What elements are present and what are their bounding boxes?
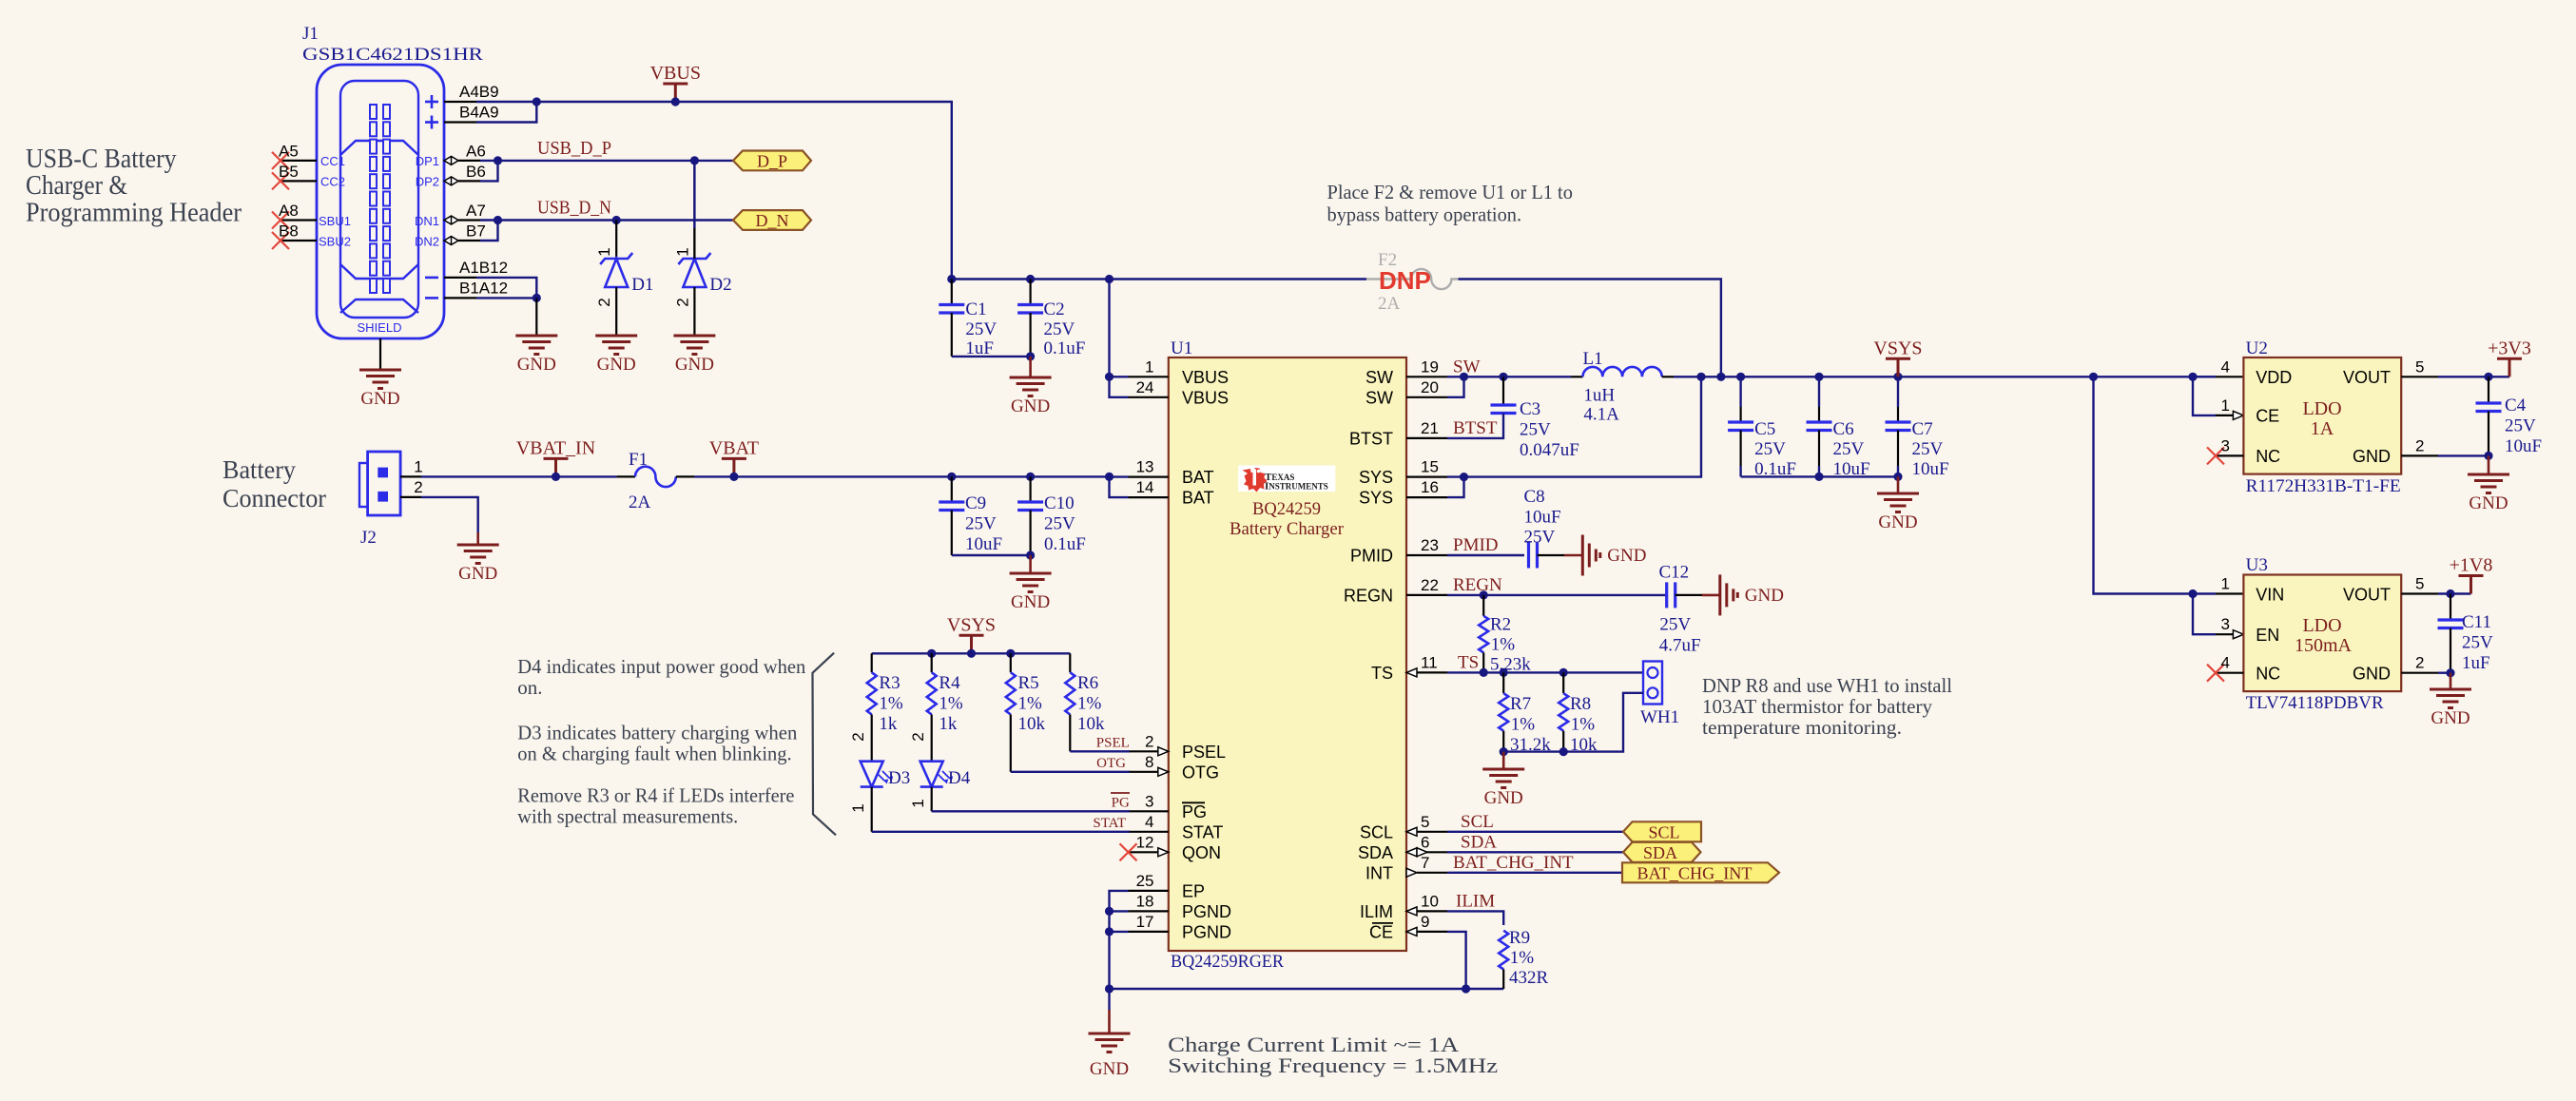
connector J1 contact ladder left column bbox=[370, 105, 377, 293]
svg-text:VBUS: VBUS bbox=[1182, 388, 1229, 407]
svg-text:GND: GND bbox=[458, 564, 497, 584]
capacitor C3 plates bbox=[1491, 405, 1517, 414]
wire B6 joins USB_D_P bbox=[480, 161, 498, 182]
junction CE at ground bus bbox=[1462, 984, 1470, 993]
wire U1 PGND pin18 connect bbox=[1110, 910, 1129, 912]
svg-text:10k: 10k bbox=[1018, 714, 1046, 734]
IC U1 pin 11 direction arrow bbox=[1406, 668, 1417, 677]
svg-text:J2: J2 bbox=[360, 528, 377, 548]
svg-text:BTST: BTST bbox=[1453, 418, 1498, 438]
junction C10 bottom bbox=[1026, 550, 1035, 559]
IC U1 pin 22 REGN stub bbox=[1406, 594, 1447, 596]
svg-text:B7: B7 bbox=[466, 222, 486, 241]
junction ground bus at C6 bbox=[1814, 473, 1823, 481]
resistor R8 bottom lead bbox=[1562, 731, 1564, 752]
capacitor C10 top lead bbox=[1029, 476, 1031, 502]
svg-text:25V: 25V bbox=[1912, 439, 1944, 459]
svg-text:1: 1 bbox=[849, 803, 867, 812]
svg-text:C2: C2 bbox=[1044, 299, 1065, 319]
svg-text:INT: INT bbox=[1365, 863, 1393, 882]
connector J1 pin B4A9 stub bbox=[444, 121, 476, 123]
junction U3 VIN at EN branch bbox=[2188, 589, 2197, 598]
junction TS at R8 bbox=[1559, 668, 1568, 677]
connector J1 pin A8 stub bbox=[281, 219, 317, 221]
junction B4A9/VBUS bbox=[533, 97, 541, 106]
svg-text:Connector: Connector bbox=[223, 484, 326, 512]
IC U1 pin 2 PSEL stub bbox=[1129, 750, 1158, 752]
svg-text:Battery: Battery bbox=[223, 455, 296, 484]
svg-text:1%: 1% bbox=[1571, 715, 1596, 735]
ground GND at J1 shield bbox=[359, 370, 401, 389]
IC U1 pin 11 TS stub bbox=[1417, 671, 1447, 673]
inductor L1 winding bbox=[1583, 367, 1662, 377]
svg-text:R3: R3 bbox=[879, 673, 900, 693]
IC U1 pin 6 SDA stub bbox=[1417, 851, 1447, 853]
junction ground bus at U1 stem bbox=[1105, 984, 1114, 993]
svg-text:GND: GND bbox=[1090, 1059, 1129, 1079]
svg-text:24: 24 bbox=[1136, 378, 1154, 396]
IC U3 pin 4 stub bbox=[2217, 672, 2243, 674]
svg-text:R8: R8 bbox=[1570, 694, 1591, 714]
junction VBAT bbox=[729, 473, 738, 481]
fuse F1 element bbox=[635, 467, 676, 487]
capacitor C1 plates bbox=[939, 305, 964, 314]
svg-text:SCL: SCL bbox=[1461, 812, 1494, 832]
svg-text:1uF: 1uF bbox=[2462, 653, 2490, 673]
junction USB_D_N at D1 branch bbox=[612, 216, 621, 224]
wire SW pin20 join bbox=[1447, 377, 1464, 397]
IC U1 TI logo bbox=[1238, 465, 1335, 492]
junction VSYS at C5 bbox=[1736, 373, 1745, 381]
wire D2 branch from USB_D_P bbox=[693, 161, 695, 228]
resistor R2 bottom lead bbox=[1482, 652, 1484, 672]
svg-text:PG: PG bbox=[1112, 795, 1130, 810]
connector J1 minus marks bbox=[425, 278, 438, 299]
connector J2 pin 1 stub bbox=[400, 475, 421, 477]
svg-text:5: 5 bbox=[2415, 575, 2424, 593]
svg-text:4: 4 bbox=[2221, 654, 2230, 672]
wire U2 VOUT to +3V3 bbox=[2438, 376, 2509, 377]
wire PSEL from R6 bbox=[1070, 750, 1130, 752]
svg-text:25V: 25V bbox=[1044, 319, 1075, 339]
resistor R6 bottom lead bbox=[1069, 715, 1071, 752]
wire C9 to C10 ground link bbox=[952, 554, 1031, 556]
svg-text:temperature monitoring.: temperature monitoring. bbox=[1702, 716, 1902, 739]
svg-text:1%: 1% bbox=[1077, 694, 1102, 714]
svg-text:2: 2 bbox=[414, 478, 422, 496]
resistor R9 bottom lead bbox=[1502, 970, 1504, 990]
resistor R6 top lead bbox=[1069, 653, 1071, 672]
svg-text:Place F2 & remove U1 or L1 to: Place F2 & remove U1 or L1 to bbox=[1327, 181, 1573, 203]
svg-text:19: 19 bbox=[1421, 357, 1439, 376]
svg-text:DP1: DP1 bbox=[416, 154, 439, 168]
svg-text:B6: B6 bbox=[466, 163, 486, 181]
wire VSYS LED rail bbox=[872, 652, 1071, 654]
svg-text:USB_D_P: USB_D_P bbox=[537, 138, 611, 159]
wire VSYS to U2 VDD bbox=[2193, 376, 2216, 377]
junction VSYS at U3 branch bbox=[2089, 373, 2098, 381]
svg-text:10: 10 bbox=[1421, 892, 1439, 910]
diode D2 triangle bbox=[683, 259, 706, 287]
svg-text:NC: NC bbox=[2256, 665, 2280, 684]
connector J1 shell divider bottom cap bbox=[340, 299, 418, 313]
resistor R3 top lead bbox=[871, 653, 873, 672]
wire C7 ground lead bbox=[1897, 476, 1900, 493]
svg-text:1: 1 bbox=[414, 458, 422, 476]
junction SW at C3 bbox=[1499, 373, 1507, 381]
IC U1 pin 7 INT stub bbox=[1417, 872, 1447, 874]
svg-text:25V: 25V bbox=[965, 319, 997, 339]
IC U1 pin 10 direction arrow bbox=[1406, 907, 1417, 916]
IC U1 pin 5 SCL stub bbox=[1417, 831, 1447, 833]
svg-text:2: 2 bbox=[849, 732, 867, 741]
resistor R9 body bbox=[1499, 931, 1508, 970]
capacitor C3 top lead bbox=[1502, 377, 1504, 405]
IC U1 pin 8 OTG stub bbox=[1129, 771, 1158, 773]
IC U1 pin 25 EP stub bbox=[1129, 890, 1169, 892]
capacitor C2 top lead bbox=[1029, 280, 1031, 305]
svg-text:DP2: DP2 bbox=[416, 175, 439, 189]
power flag +1V8 bbox=[2459, 576, 2484, 594]
LED D4 symbol bbox=[920, 762, 953, 787]
IC U1 pin 8 input arrow bbox=[1158, 767, 1169, 776]
connector J1 pin A5 no-connect X bbox=[272, 152, 289, 169]
svg-text:+1V8: +1V8 bbox=[2450, 555, 2493, 576]
capacitor C11 plates bbox=[2438, 620, 2464, 628]
fuse F1 right lead bbox=[676, 475, 694, 477]
svg-text:1%: 1% bbox=[1491, 635, 1516, 655]
junction VSYS at F2 branch bbox=[1716, 373, 1725, 381]
connector J1 pin A6 direction diamond bbox=[444, 156, 458, 164]
svg-text:1A: 1A bbox=[2311, 418, 2334, 439]
svg-text:2: 2 bbox=[909, 732, 927, 741]
IC U3 pin 5 stub bbox=[2401, 592, 2438, 594]
connector J1 pin A8 no-connect X bbox=[272, 212, 289, 229]
junction VSYS at C7 bbox=[1893, 373, 1902, 381]
junction BAT pins split bbox=[1105, 473, 1114, 481]
junction TS at R2 bbox=[1480, 668, 1488, 677]
svg-text:VBUS: VBUS bbox=[1182, 368, 1229, 387]
svg-text:SDA: SDA bbox=[1358, 843, 1393, 862]
IC U3 pin 2 stub bbox=[2401, 672, 2438, 674]
capacitor C11 top lead bbox=[2450, 594, 2451, 621]
capacitor C2 plates bbox=[1017, 305, 1043, 314]
bracket for LED note bbox=[813, 653, 837, 836]
IC U1 pin 3 PG stub bbox=[1129, 810, 1169, 812]
connector J1 pin B5 stub bbox=[281, 180, 317, 182]
ground GND below U1 bbox=[1089, 1033, 1131, 1053]
svg-text:Remove R3 or R4 if LEDs interf: Remove R3 or R4 if LEDs interfere bbox=[517, 784, 794, 807]
no-connect X at U1 QON bbox=[1120, 843, 1137, 860]
diode D1 zener bar bbox=[600, 253, 632, 264]
junction PGND 18 bbox=[1105, 907, 1114, 916]
svg-text:L1: L1 bbox=[1583, 349, 1603, 369]
svg-text:4: 4 bbox=[1145, 813, 1153, 831]
junction VOUT at C4 bbox=[2484, 373, 2492, 381]
wire PMID to C8 bbox=[1447, 554, 1524, 556]
svg-text:1%: 1% bbox=[1510, 948, 1535, 968]
connector J1 pin B6 direction diamond bbox=[444, 177, 458, 185]
svg-text:VIN: VIN bbox=[2256, 586, 2284, 605]
connector J1 contact ladder right column bbox=[383, 105, 390, 293]
net flag BAT_CHG_INT bbox=[1622, 862, 1779, 882]
wire BAT pin14 branch bbox=[1110, 477, 1129, 497]
svg-text:CC2: CC2 bbox=[320, 175, 345, 189]
svg-text:10uF: 10uF bbox=[2505, 436, 2542, 456]
wire VBUS rail from F2 down to SW node bbox=[1459, 280, 1721, 377]
text note D3 D4 LEDs bbox=[517, 655, 805, 828]
IC U1 pin 20 SW stub bbox=[1406, 396, 1447, 398]
svg-text:1%: 1% bbox=[939, 694, 963, 714]
svg-text:GND: GND bbox=[517, 355, 556, 375]
svg-text:2: 2 bbox=[1145, 732, 1153, 750]
junction at U1 pin1 bbox=[1105, 373, 1114, 381]
capacitor C1 top lead bbox=[951, 280, 953, 305]
IC U1 pin 23 PMID stub bbox=[1406, 554, 1447, 556]
junction U3 VOUT at C11 bbox=[2446, 589, 2454, 598]
IC U1 pin 6 direction arrow bbox=[1406, 848, 1417, 857]
svg-text:B8: B8 bbox=[279, 222, 299, 241]
svg-text:TS: TS bbox=[1458, 652, 1479, 672]
svg-text:D4: D4 bbox=[948, 768, 971, 788]
svg-text:GSB1C4621DS1HR: GSB1C4621DS1HR bbox=[302, 45, 483, 65]
svg-text:B5: B5 bbox=[279, 163, 299, 181]
inductor L1 right lead bbox=[1662, 376, 1674, 377]
svg-text:21: 21 bbox=[1421, 419, 1439, 437]
wire C2 bottom to ground bbox=[1029, 357, 1032, 377]
capacitor C5 top lead bbox=[1739, 377, 1741, 407]
svg-text:GND: GND bbox=[675, 355, 714, 375]
IC U1 pin 10 ILIM stub bbox=[1417, 910, 1447, 912]
resistor R5 bottom lead bbox=[1010, 715, 1012, 772]
svg-text:STAT: STAT bbox=[1093, 816, 1126, 831]
IC U3 EN input arrow bbox=[2233, 630, 2243, 639]
IC U2 pin 3 stub bbox=[2217, 454, 2243, 456]
fuse F2 (DNP) symbol bbox=[1366, 269, 1458, 289]
junction VSYS at SYS branch bbox=[1696, 373, 1705, 381]
svg-text:25V: 25V bbox=[1754, 439, 1786, 459]
svg-text:C6: C6 bbox=[1833, 419, 1854, 439]
wire SYS pins to VSYS node bbox=[1447, 377, 1701, 476]
svg-text:1uH: 1uH bbox=[1583, 386, 1615, 406]
junction USB_D_P at D2 branch bbox=[690, 156, 699, 164]
capacitor C7 top lead bbox=[1897, 377, 1899, 407]
svg-text:BQ24259RGER: BQ24259RGER bbox=[1171, 952, 1284, 972]
resistor R7 top lead bbox=[1502, 672, 1504, 693]
IC U1 pin 5 direction arrow bbox=[1406, 827, 1417, 836]
net flag SDA bbox=[1623, 842, 1701, 862]
svg-text:150mA: 150mA bbox=[2295, 635, 2353, 656]
svg-text:C9: C9 bbox=[965, 493, 986, 513]
svg-text:bypass battery operation.: bypass battery operation. bbox=[1327, 203, 1522, 226]
wire B1A12 junction down bbox=[535, 298, 537, 336]
power flag VBUS bbox=[663, 84, 688, 102]
fuse F1 left lead bbox=[617, 475, 635, 477]
svg-text:18: 18 bbox=[1136, 892, 1154, 910]
svg-text:D_P: D_P bbox=[757, 152, 787, 171]
inductor L1 left lead bbox=[1571, 376, 1583, 377]
svg-text:A6: A6 bbox=[466, 143, 486, 161]
IC U1 pin 12 QON stub bbox=[1129, 851, 1158, 853]
svg-text:ILIM: ILIM bbox=[1360, 902, 1393, 921]
connector J1 shell divider lower bbox=[340, 264, 418, 279]
svg-text:3: 3 bbox=[1145, 792, 1153, 810]
svg-text:BTST: BTST bbox=[1349, 429, 1393, 448]
svg-text:SCL: SCL bbox=[1648, 823, 1679, 842]
connector J1 shield stub bbox=[379, 338, 381, 370]
junction BAT at C10 bbox=[1026, 473, 1035, 481]
svg-text:R1172H331B-T1-FE: R1172H331B-T1-FE bbox=[2246, 476, 2401, 496]
svg-text:DNP R8 and use WH1 to install: DNP R8 and use WH1 to install bbox=[1702, 674, 1952, 697]
connector J1 plus marks bbox=[425, 95, 438, 129]
svg-text:25V: 25V bbox=[965, 514, 997, 534]
capacitor C12 plates bbox=[1667, 582, 1675, 608]
junction USB_D_P at B6 bbox=[494, 156, 502, 164]
svg-text:SDA: SDA bbox=[1461, 832, 1497, 852]
IC U1 pin 2 input arrow bbox=[1158, 747, 1169, 756]
capacitor C4 bottom lead bbox=[2488, 412, 2489, 456]
capacitor C11 bottom lead bbox=[2450, 628, 2451, 673]
svg-text:D1: D1 bbox=[631, 275, 653, 295]
junction VBUS rail at C1 bbox=[947, 275, 956, 283]
svg-text:1: 1 bbox=[673, 247, 691, 256]
resistor R8 body bbox=[1559, 693, 1568, 730]
wire U2 GND to C4 bottom bbox=[2438, 454, 2489, 456]
junction VBUS rail at U1 branch bbox=[1105, 275, 1114, 283]
junction VBUS rail at C2 bbox=[1026, 275, 1035, 283]
wire U3 EN branch bbox=[2193, 594, 2216, 635]
svg-text:1%: 1% bbox=[879, 694, 903, 714]
wire U1 EP/PGND bus bbox=[1110, 891, 1129, 989]
wire A1B12 to B1A12 ground bbox=[476, 278, 536, 299]
wire SYS pin16 join bbox=[1447, 477, 1464, 497]
svg-text:DN1: DN1 bbox=[415, 214, 439, 228]
svg-text:REGN: REGN bbox=[1344, 586, 1393, 605]
svg-text:SHIELD: SHIELD bbox=[358, 320, 402, 335]
svg-text:VDD: VDD bbox=[2256, 368, 2292, 387]
svg-text:GND: GND bbox=[1484, 788, 1523, 808]
svg-text:25V: 25V bbox=[2462, 633, 2493, 653]
svg-text:C5: C5 bbox=[1754, 419, 1775, 439]
connector J1 pin B7 direction diamond bbox=[444, 237, 458, 245]
junction SW at pin20 bbox=[1460, 373, 1468, 381]
capacitor C4 plates bbox=[2476, 403, 2502, 412]
resistor R8 top lead bbox=[1562, 672, 1564, 693]
svg-text:PSEL: PSEL bbox=[1096, 735, 1130, 750]
capacitor C5 bottom lead bbox=[1739, 431, 1741, 467]
svg-text:A8: A8 bbox=[279, 202, 299, 220]
resistor R3 body bbox=[867, 672, 877, 714]
IC U1 pin 12 input arrow bbox=[1158, 848, 1169, 857]
svg-text:A4B9: A4B9 bbox=[459, 83, 499, 101]
IC U2 pin 3 no-connect X bbox=[2207, 447, 2224, 464]
svg-text:CE: CE bbox=[1369, 922, 1393, 941]
junction LED rail at R4 bbox=[927, 649, 936, 658]
svg-text:6: 6 bbox=[1421, 833, 1429, 851]
connector J2 body bbox=[368, 452, 401, 515]
svg-text:PMID: PMID bbox=[1350, 547, 1393, 566]
svg-text:R5: R5 bbox=[1018, 673, 1039, 693]
svg-text:25V: 25V bbox=[1520, 420, 1551, 440]
svg-text:U3: U3 bbox=[2246, 555, 2268, 575]
svg-text:VBUS: VBUS bbox=[650, 63, 701, 84]
IC U2 pin 5 stub bbox=[2401, 376, 2438, 377]
svg-text:Charger &: Charger & bbox=[26, 170, 127, 201]
capacitor C6 top lead bbox=[1818, 377, 1820, 407]
junction C4 bottom bbox=[2484, 452, 2492, 460]
svg-text:D2: D2 bbox=[709, 275, 731, 295]
ground GND below C2 bbox=[1010, 377, 1052, 396]
svg-text:SW: SW bbox=[1365, 368, 1393, 387]
junction LED rail at VSYS bbox=[967, 649, 976, 658]
ground GND below C7 bbox=[1877, 493, 1919, 512]
svg-text:BAT_CHG_INT: BAT_CHG_INT bbox=[1453, 853, 1574, 873]
wire decoupling ground bus C5-C7 bbox=[1741, 475, 1898, 477]
ground GND sideways at C8 bbox=[1582, 535, 1600, 576]
IC U1 pin 1 VBUS stub bbox=[1129, 376, 1169, 377]
diode D1 anode lead bbox=[615, 287, 617, 336]
ground GND below C4 bbox=[2468, 474, 2509, 493]
connector J2 side tab bbox=[359, 463, 368, 507]
svg-text:J1: J1 bbox=[302, 24, 319, 44]
svg-text:GND: GND bbox=[360, 389, 399, 409]
wire VBUS rail to F2 bbox=[952, 278, 1366, 280]
LED D3 symbol bbox=[861, 762, 893, 787]
svg-text:4: 4 bbox=[2221, 357, 2230, 376]
capacitor C9 plates bbox=[939, 502, 964, 511]
connector J1 pin A1B12 stub bbox=[444, 277, 476, 279]
svg-text:R6: R6 bbox=[1077, 673, 1098, 693]
IC U1 pin 9 CE stub bbox=[1417, 931, 1447, 933]
wire ILIM to R9 bbox=[1447, 911, 1503, 925]
svg-text:GND: GND bbox=[1745, 586, 1784, 606]
wire TS net bbox=[1447, 671, 1643, 673]
svg-text:D4 indicates input power good: D4 indicates input power good when bbox=[517, 655, 805, 678]
svg-text:VOUT: VOUT bbox=[2343, 368, 2391, 387]
junction ground bus at C7 bbox=[1893, 473, 1902, 481]
wire ground bus below U1 bbox=[1110, 988, 1504, 990]
svg-text:5: 5 bbox=[2415, 357, 2424, 376]
svg-text:GND: GND bbox=[2469, 493, 2508, 513]
svg-text:U1: U1 bbox=[1171, 338, 1192, 358]
wire J2 pin2 ground lead bbox=[476, 532, 479, 545]
power flag VSYS at C7 bbox=[1886, 358, 1910, 377]
resistor R2 top lead bbox=[1482, 595, 1484, 616]
svg-text:10uF: 10uF bbox=[1524, 508, 1561, 528]
svg-text:TLV74118PDBVR: TLV74118PDBVR bbox=[2246, 693, 2384, 713]
power flag VSYS at LED rail bbox=[959, 635, 984, 653]
resistor R4 body bbox=[927, 672, 937, 714]
svg-text:1k: 1k bbox=[939, 714, 958, 734]
diode D2 anode lead bbox=[693, 287, 695, 336]
junction PGND 17 bbox=[1105, 927, 1114, 936]
svg-text:VSYS: VSYS bbox=[947, 614, 996, 635]
svg-text:QON: QON bbox=[1182, 843, 1221, 862]
capacitor C7 bottom lead bbox=[1897, 431, 1899, 467]
svg-text:D3: D3 bbox=[888, 768, 910, 788]
svg-text:BQ24259: BQ24259 bbox=[1252, 499, 1321, 519]
IC U1 pin 19 SW stub bbox=[1406, 376, 1447, 377]
svg-text:DNP: DNP bbox=[1379, 266, 1431, 295]
junction VSYS at C6 bbox=[1814, 373, 1823, 381]
svg-text:GND: GND bbox=[2431, 708, 2469, 728]
svg-text:PG: PG bbox=[1182, 802, 1207, 821]
svg-text:WH1: WH1 bbox=[1640, 707, 1679, 727]
svg-text:25V: 25V bbox=[1044, 514, 1075, 534]
svg-text:INSTRUMENTS: INSTRUMENTS bbox=[1265, 481, 1328, 493]
connector J1 body outline bbox=[317, 65, 444, 338]
svg-text:GND: GND bbox=[597, 355, 636, 375]
